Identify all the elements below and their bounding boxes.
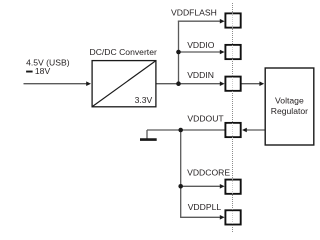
svg-text:VDDIO: VDDIO <box>187 40 215 50</box>
svg-text:VDDPLL: VDDPLL <box>188 202 222 212</box>
svg-text:Regulator: Regulator <box>271 106 308 116</box>
svg-text:VDDIN: VDDIN <box>187 70 214 80</box>
svg-text:DC/DC Converter: DC/DC Converter <box>90 47 157 57</box>
svg-text:18V: 18V <box>35 66 51 76</box>
svg-text:VDDCORE: VDDCORE <box>187 167 230 177</box>
svg-text:Voltage: Voltage <box>275 96 304 106</box>
svg-text:VDDFLASH: VDDFLASH <box>171 8 217 18</box>
svg-text:3.3V: 3.3V <box>135 95 153 105</box>
svg-text:VDDOUT: VDDOUT <box>187 114 224 124</box>
